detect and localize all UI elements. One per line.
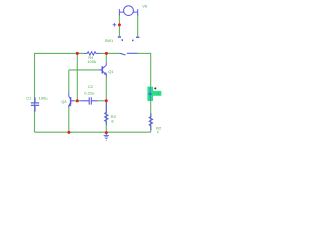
wire Q3 emitter vertical xyxy=(68,107,70,132)
svg-text:100u: 100u xyxy=(39,95,48,100)
voltage source V6 xyxy=(119,6,137,16)
junction node V6 wire xyxy=(118,23,121,26)
wire C2 row right xyxy=(98,100,107,102)
resistor R2 xyxy=(149,113,152,130)
svg-text:C1: C1 xyxy=(26,95,32,100)
resistor R4 100k xyxy=(84,52,101,55)
node dot xyxy=(154,87,156,89)
svg-text:SW1: SW1 xyxy=(105,38,114,43)
arrow marker xyxy=(148,93,153,96)
capacitor C2 xyxy=(81,97,98,104)
transistor Q1 xyxy=(100,63,108,77)
wire top horizontal left segment xyxy=(35,52,84,54)
junction node C xyxy=(76,99,79,102)
resistor R3 xyxy=(105,101,108,125)
wire V6 right lead down xyxy=(137,14,139,36)
transistor Q3 xyxy=(68,92,77,107)
SW1 open pin marker right xyxy=(133,37,140,41)
junction node Q3 emitter xyxy=(67,131,70,134)
wire right rail lower xyxy=(150,101,152,133)
wire bottom horizontal xyxy=(35,131,151,133)
plus polarity marker xyxy=(113,23,117,27)
svg-text:Q3: Q3 xyxy=(61,99,67,104)
wire R3 vertical xyxy=(105,101,107,132)
wire Q1 collector vertical xyxy=(105,53,107,62)
SW1 open pin marker left xyxy=(118,37,123,41)
junction node A xyxy=(76,52,79,55)
wire left rail vertical xyxy=(34,53,36,132)
svg-text:V6: V6 xyxy=(142,3,148,8)
svg-text:C2: C2 xyxy=(88,84,94,89)
wire mid rail vertical xyxy=(76,53,78,100)
switch SW1 xyxy=(120,53,126,55)
svg-text:100k: 100k xyxy=(87,59,96,64)
svg-text:Q1: Q1 xyxy=(108,69,114,74)
svg-text:x1: x1 xyxy=(157,92,161,96)
junction node B xyxy=(105,52,108,55)
wire right rail upper xyxy=(150,53,152,87)
junction node D xyxy=(105,99,108,102)
wire top horizontal middle segment xyxy=(100,52,119,54)
capacitor C1 xyxy=(31,97,39,111)
wire C2 row left xyxy=(77,100,80,102)
ground xyxy=(104,133,109,140)
component X1 highlighted body xyxy=(147,87,161,101)
svg-text:0.22u: 0.22u xyxy=(84,91,94,96)
wire base row horizontal xyxy=(69,69,100,71)
wire Q1 emitter vertical xyxy=(105,77,107,101)
wire V6 left lead down xyxy=(118,14,120,36)
wire Q3 collector vertical xyxy=(68,70,70,92)
junction node E ground xyxy=(105,131,108,134)
wire top horizontal right segment xyxy=(138,52,151,54)
